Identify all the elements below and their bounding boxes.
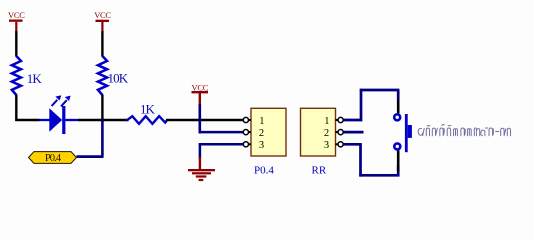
- svg-text:1K: 1K: [27, 71, 43, 86]
- svg-text:RR: RR: [312, 164, 327, 176]
- svg-text:P0.4: P0.4: [45, 153, 62, 164]
- svg-text:2: 2: [259, 128, 264, 139]
- svg-text:10K: 10K: [108, 71, 129, 86]
- svg-text:VCC: VCC: [192, 82, 209, 92]
- svg-text:1K: 1K: [140, 101, 156, 116]
- svg-text:1: 1: [259, 116, 264, 127]
- svg-text:3: 3: [259, 140, 264, 151]
- svg-text:P0.4: P0.4: [254, 164, 274, 176]
- svg-text:2: 2: [324, 128, 329, 139]
- svg-text:VCC: VCC: [94, 10, 111, 20]
- svg-text:3: 3: [324, 140, 329, 151]
- svg-text:VCC: VCC: [8, 10, 25, 20]
- svg-text:1: 1: [324, 116, 329, 127]
